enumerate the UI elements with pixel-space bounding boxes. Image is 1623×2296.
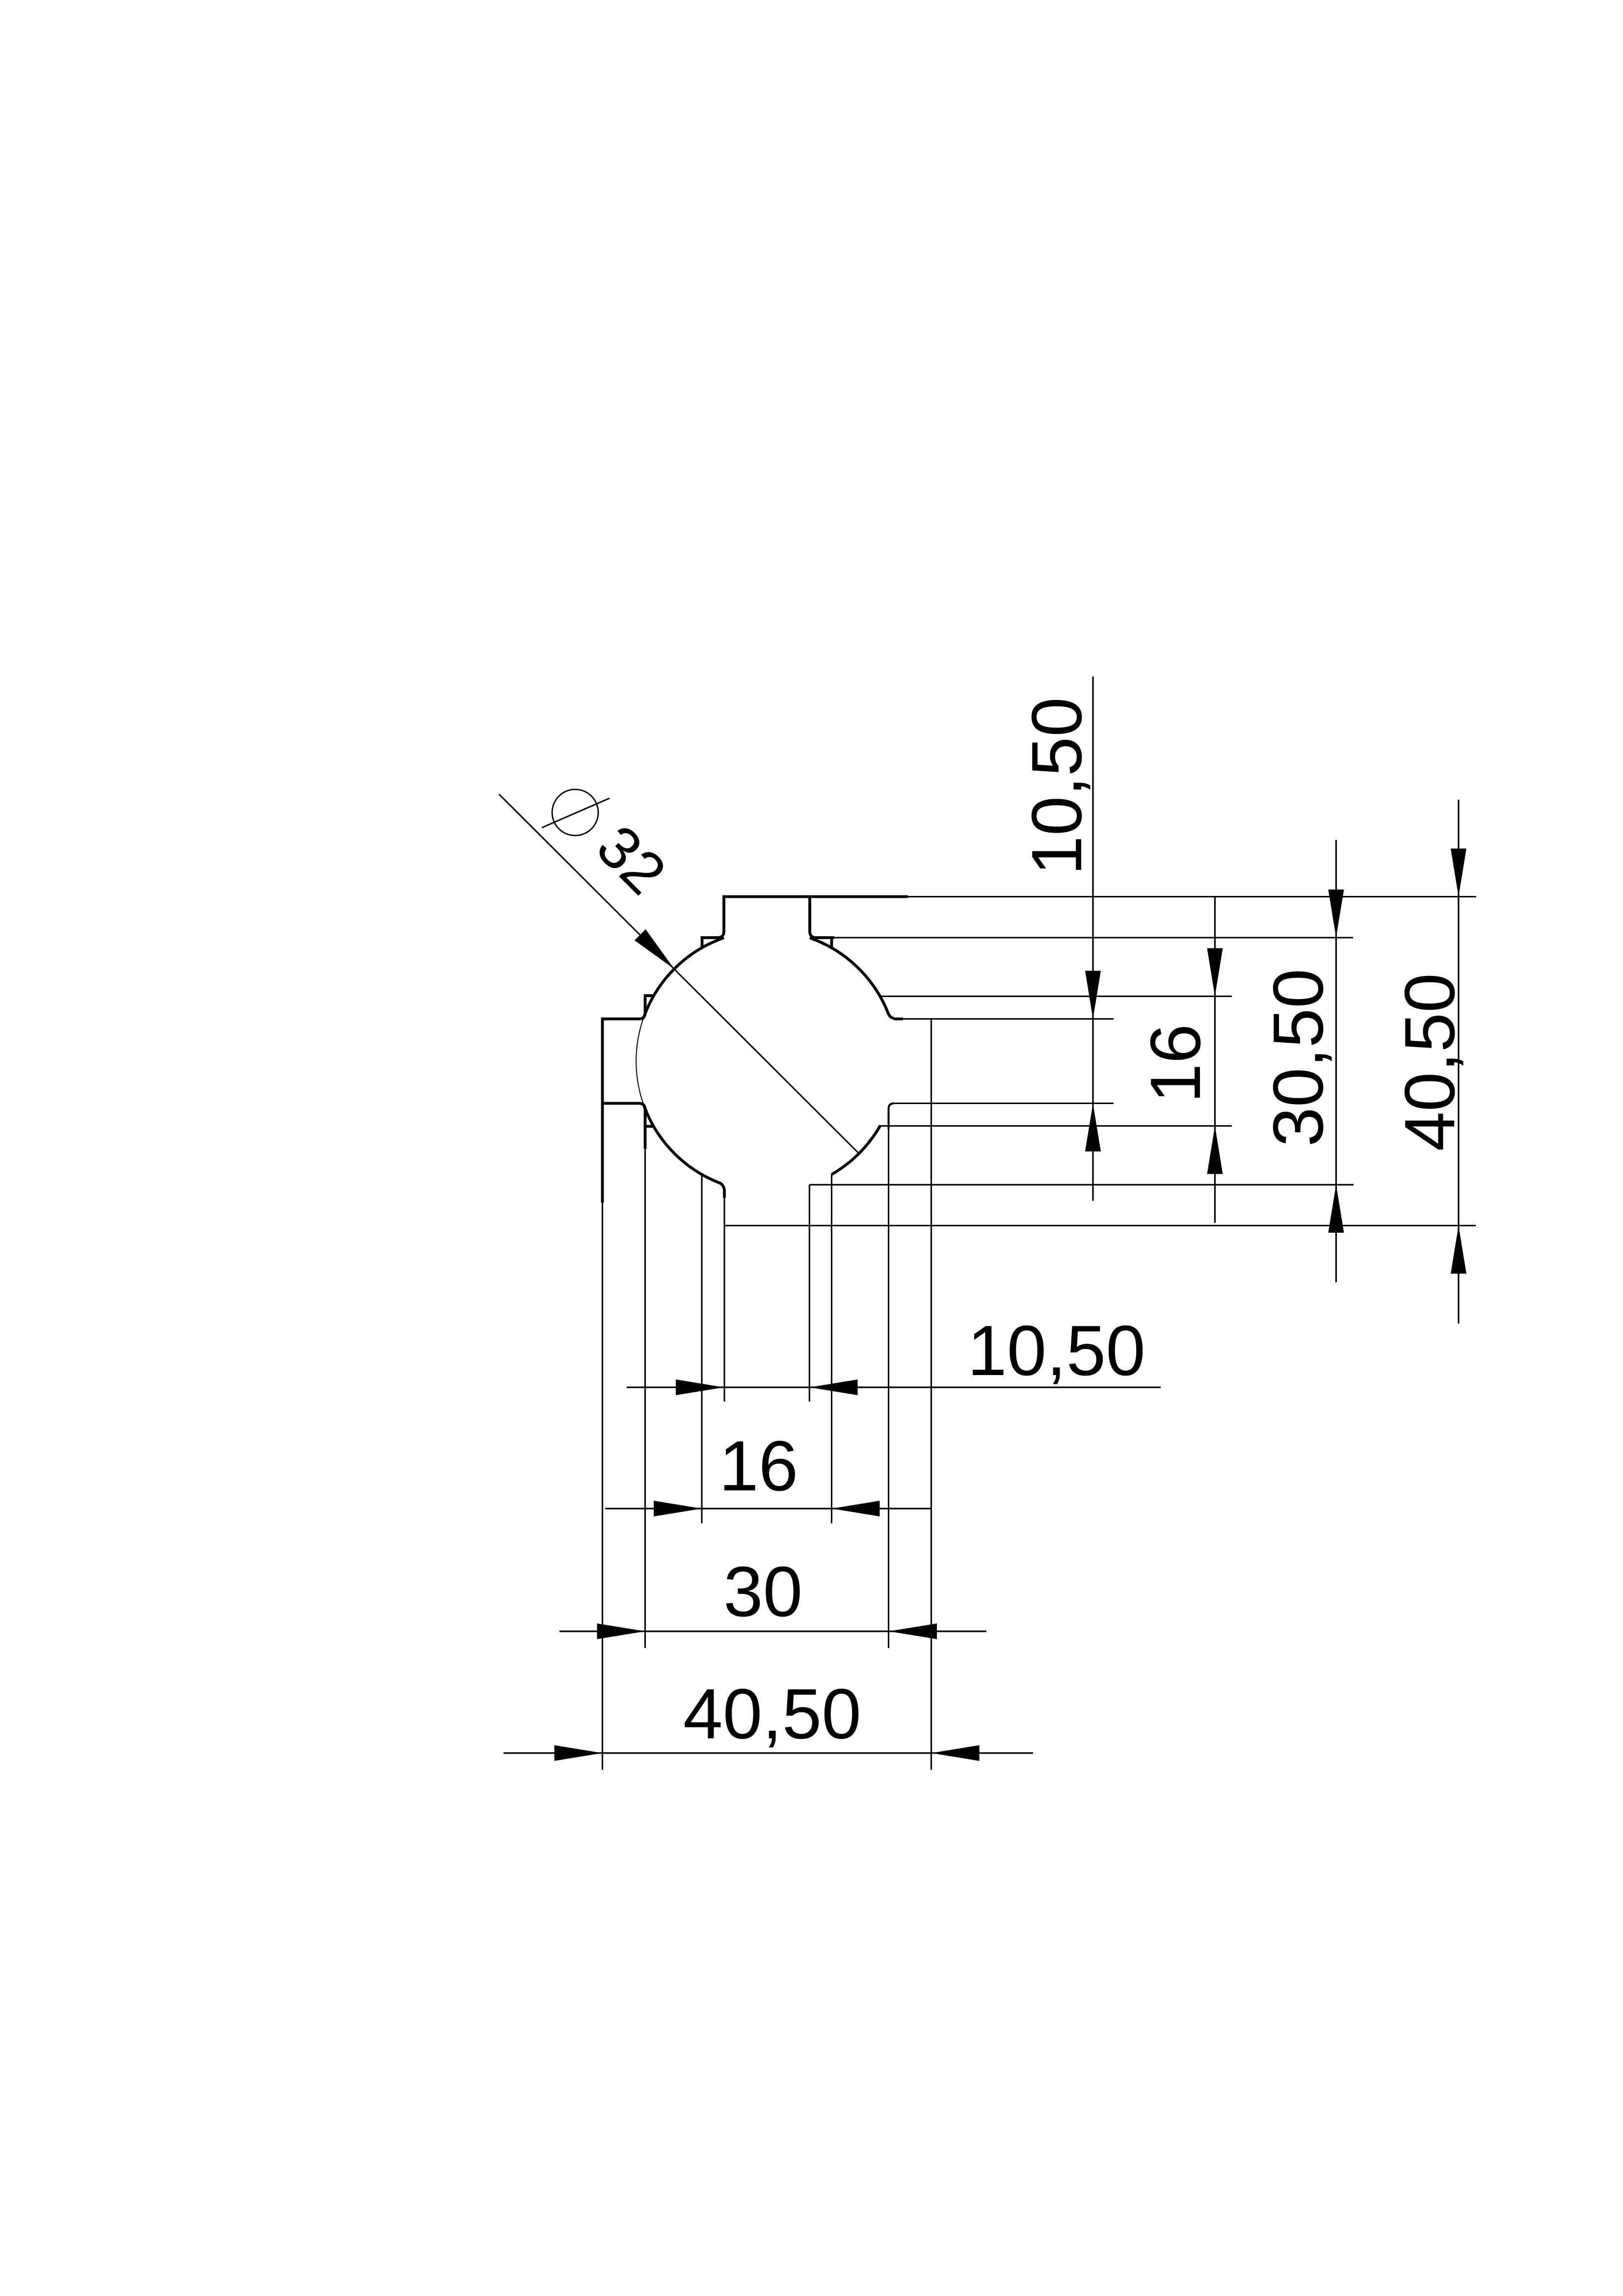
svg-text:16: 16 <box>1136 1024 1215 1103</box>
dimension line 16 bottom <box>605 1508 931 1509</box>
diameter symbol slash <box>542 798 610 828</box>
arrowheads 16 bottom <box>654 1501 702 1516</box>
wire outer right line ⌀40.5 vertical arm <box>931 1019 932 1770</box>
arrowheads 30,50 right <box>1328 890 1344 938</box>
wire inner corner fillet A7 top into ⌀10.5 bottom line <box>889 1104 895 1130</box>
arrowheads 10,50 right <box>1085 971 1101 1019</box>
dimension line 40,50 right <box>1458 800 1459 1324</box>
wire ⌀16 left line vertical arm <box>701 1175 702 1524</box>
wire ⌀30.5 bottom line horizontal arm <box>809 1184 1354 1186</box>
wire ⌀30.5 top line horizontal arm <box>834 937 1353 938</box>
dimension line 30,50 right <box>1335 840 1337 1282</box>
wire ⌀10.5 left line vertical arm <box>723 1198 725 1402</box>
arrowheads 30 bottom <box>597 1623 645 1639</box>
arrowheads 40,50 bottom <box>555 1745 603 1761</box>
svg-text:10,50: 10,50 <box>1017 697 1096 875</box>
ball arc SE segment (inner corner) <box>832 1126 880 1175</box>
arrowheads 40,50 right <box>1451 849 1466 897</box>
wire ⌀30 left line vertical arm <box>644 1149 646 1648</box>
wire ⌀16 right line vertical arm <box>831 1174 832 1523</box>
wire ⌀16 top line horizontal arm <box>880 996 1232 997</box>
dimension line 40,50 bottom <box>504 1752 1033 1754</box>
wire ⌀30 right line vertical arm <box>888 1129 889 1648</box>
wire left outer edge thick tail <box>601 1104 604 1203</box>
dimension line 16 right <box>1214 897 1216 1223</box>
ball arc SW segment with fillet into vertical bore line <box>643 1104 724 1198</box>
dimension line 10,50 bottom <box>627 1386 1161 1388</box>
wire A2 vertical line upper thick part <box>644 1126 647 1149</box>
svg-text:16: 16 <box>719 1426 798 1506</box>
wire ⌀10.5 bottom line horizontal arm <box>894 1103 1114 1104</box>
arrowheads 10,50 bottom <box>676 1379 724 1395</box>
svg-text:10,50: 10,50 <box>967 1311 1145 1390</box>
wire outer left line ⌀40.5 vertical arm <box>602 1203 603 1770</box>
ball arc NE segment with fillet into bore line <box>810 938 903 1019</box>
diameter symbol circle <box>552 789 598 836</box>
dimension line 10,50 right <box>1092 676 1093 1201</box>
svg-text:30,50: 30,50 <box>1258 969 1338 1147</box>
wire left boss outline (vertical arm ⌀10.5 tube boss) <box>603 996 654 1126</box>
svg-text:30: 30 <box>723 1552 802 1631</box>
wire outer bottom line ⌀40.5 horizontal arm <box>724 1225 1476 1226</box>
svg-text:40,50: 40,50 <box>1390 973 1469 1151</box>
arrowheads 16 right <box>1207 948 1223 997</box>
ball arc thin west segment <box>636 996 654 1127</box>
svg-text:40,50: 40,50 <box>683 1674 861 1754</box>
wire boss right edge with fillet into ⌀30.5 line <box>810 897 834 938</box>
wire ⌀10.5 top line horizontal arm <box>903 1018 1114 1020</box>
ball arc NW segment <box>643 938 724 1018</box>
wire top boss outline (ball nut, horizontal arm ⌀10.5 tube boss) <box>702 897 908 948</box>
wire ⌀10.5 right line vertical arm <box>809 1185 810 1402</box>
arrow of ⌀32 leader <box>635 929 674 969</box>
dimension line 30 bottom <box>559 1630 986 1632</box>
leader line ⌀32 with diameter line through ball <box>499 794 859 1154</box>
wire ⌀16 bottom line horizontal arm <box>878 1125 1232 1127</box>
wire right drop edge at ⌀16 position <box>830 938 833 948</box>
wire outer top line ⌀40.5 horizontal arm <box>908 896 1476 897</box>
